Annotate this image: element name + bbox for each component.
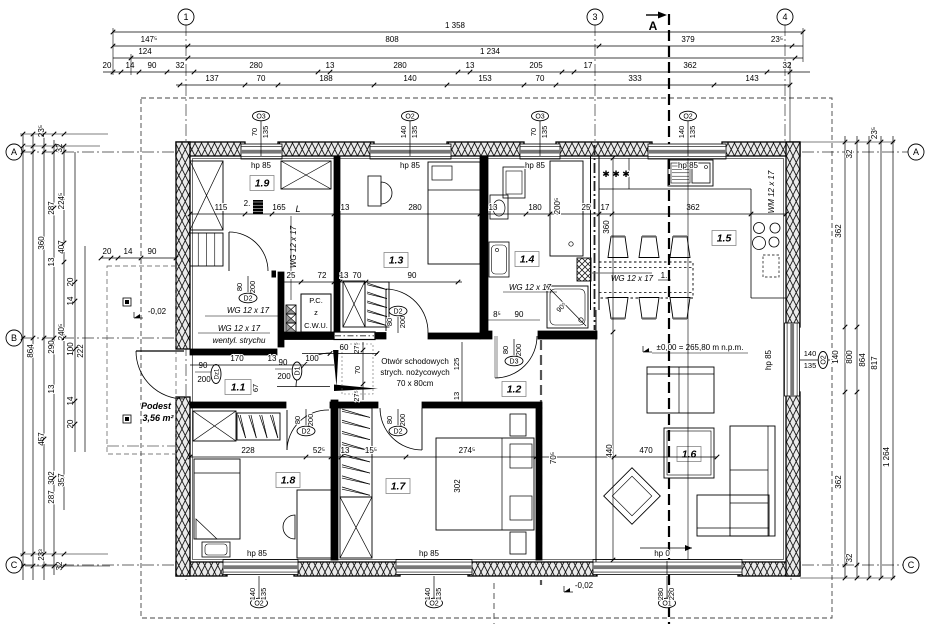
svg-text:hp 85: hp 85 [419, 549, 440, 558]
svg-text:O2: O2 [254, 601, 263, 608]
svg-text:O3: O3 [535, 114, 544, 121]
svg-text:180: 180 [528, 203, 542, 212]
svg-text:274⁵: 274⁵ [459, 446, 476, 455]
svg-text:90: 90 [199, 361, 208, 370]
svg-text:1.5: 1.5 [717, 233, 732, 245]
svg-text:70: 70 [536, 74, 545, 83]
svg-text:379: 379 [681, 35, 695, 44]
svg-text:C: C [908, 560, 915, 570]
svg-text:800: 800 [845, 350, 854, 364]
svg-text:1.9: 1.9 [255, 178, 270, 190]
svg-text:72: 72 [318, 271, 327, 280]
svg-text:WG 12 x 17: WG 12 x 17 [611, 274, 654, 283]
svg-text:17: 17 [601, 203, 610, 212]
svg-text:360: 360 [37, 236, 46, 250]
svg-text:WG 12 x 17: WG 12 x 17 [218, 324, 261, 333]
svg-text:WG 12 x 17: WG 12 x 17 [509, 283, 552, 292]
svg-text:27⁵: 27⁵ [352, 390, 361, 401]
svg-text:135: 135 [261, 126, 270, 139]
svg-text:O2: O2 [821, 355, 828, 364]
svg-text:135: 135 [259, 588, 268, 601]
svg-text:80: 80 [385, 318, 394, 326]
svg-text:302: 302 [453, 479, 462, 493]
svg-text:80: 80 [501, 346, 510, 354]
svg-text:817: 817 [870, 356, 879, 370]
svg-text:O1: O1 [662, 601, 671, 608]
svg-text:D2: D2 [302, 429, 311, 436]
svg-text:27⁵: 27⁵ [352, 342, 361, 353]
svg-text:1.3: 1.3 [389, 255, 404, 267]
svg-text:362: 362 [834, 475, 843, 489]
svg-text:864: 864 [858, 353, 867, 367]
svg-text:-0,02: -0,02 [575, 581, 594, 590]
svg-text:135: 135 [434, 588, 443, 601]
svg-text:153: 153 [478, 74, 492, 83]
svg-text:32: 32 [845, 553, 854, 562]
svg-text:70: 70 [250, 128, 259, 136]
svg-text:✱: ✱ [602, 169, 610, 179]
svg-text:140: 140 [399, 126, 408, 139]
svg-text:20: 20 [66, 277, 75, 286]
svg-text:228: 228 [241, 446, 255, 455]
svg-text:P.C.: P.C. [309, 296, 323, 305]
svg-text:137: 137 [205, 74, 219, 83]
svg-text:52⁵: 52⁵ [313, 446, 325, 455]
svg-text:Otwór schodowych: Otwór schodowych [381, 357, 449, 366]
svg-text:13: 13 [268, 354, 277, 363]
svg-text:60: 60 [340, 343, 349, 352]
svg-text:hp 85: hp 85 [764, 349, 773, 370]
svg-text:23⁵: 23⁵ [37, 125, 46, 137]
svg-text:200: 200 [514, 344, 523, 357]
svg-text:1.: 1. [661, 271, 668, 280]
svg-text:440: 440 [605, 444, 614, 458]
svg-text:224⁵: 224⁵ [57, 193, 66, 210]
svg-text:140: 140 [423, 588, 432, 601]
svg-text:1 264: 1 264 [882, 446, 891, 467]
svg-text:80: 80 [293, 416, 302, 424]
svg-text:1 234: 1 234 [480, 47, 501, 56]
svg-text:14: 14 [66, 296, 75, 305]
svg-text:hp 0: hp 0 [654, 549, 670, 558]
svg-text:90: 90 [515, 310, 524, 319]
svg-text:✱: ✱ [612, 169, 620, 179]
svg-text:205: 205 [529, 61, 543, 70]
svg-text:hp 85: hp 85 [247, 549, 268, 558]
svg-text:147⁵: 147⁵ [141, 35, 158, 44]
svg-text:333: 333 [628, 74, 642, 83]
svg-text:222: 222 [76, 344, 85, 358]
svg-text:20: 20 [103, 61, 112, 70]
svg-text:-0,02: -0,02 [148, 307, 167, 316]
svg-text:287: 287 [47, 490, 56, 504]
svg-text:362: 362 [683, 61, 697, 70]
svg-text:70⁵: 70⁵ [549, 452, 558, 464]
svg-text:D3: D3 [510, 359, 519, 366]
svg-text:4: 4 [782, 12, 787, 22]
svg-text:WM 12 x 17: WM 12 x 17 [767, 170, 776, 213]
svg-text:14: 14 [66, 396, 75, 405]
svg-text:strych. nożycowych: strych. nożycowych [380, 368, 449, 377]
svg-text:13: 13 [47, 384, 56, 393]
svg-text:1.6: 1.6 [682, 449, 697, 461]
svg-text:200: 200 [197, 375, 211, 384]
svg-text:O2: O2 [683, 114, 692, 121]
svg-text:hp 85: hp 85 [525, 161, 546, 170]
svg-text:C.W.U.: C.W.U. [304, 321, 328, 330]
svg-text:z: z [314, 308, 318, 317]
svg-text:1.4: 1.4 [520, 254, 535, 266]
svg-text:125: 125 [452, 358, 461, 371]
svg-text:1 358: 1 358 [445, 21, 466, 30]
svg-text:8⁵: 8⁵ [493, 310, 501, 319]
svg-text:140: 140 [677, 126, 686, 139]
svg-text:80: 80 [235, 283, 244, 291]
svg-text:100: 100 [305, 354, 319, 363]
svg-text:13: 13 [326, 61, 335, 70]
svg-text:23⁵: 23⁵ [771, 35, 783, 44]
svg-text:170: 170 [230, 354, 244, 363]
svg-text:Dz1: Dz1 [215, 368, 221, 379]
svg-text:140: 140 [804, 349, 817, 358]
svg-text:1.2: 1.2 [507, 384, 522, 396]
svg-text:70 x 80cm: 70 x 80cm [397, 379, 434, 388]
svg-text:362: 362 [834, 224, 843, 238]
svg-text:200: 200 [398, 414, 407, 427]
svg-text:A: A [649, 19, 658, 33]
svg-text:135: 135 [410, 126, 419, 139]
svg-text:O2: O2 [405, 114, 414, 121]
svg-text:13: 13 [489, 203, 498, 212]
svg-text:90: 90 [148, 61, 157, 70]
svg-text:143: 143 [745, 74, 759, 83]
svg-text:32: 32 [176, 61, 185, 70]
svg-text:808: 808 [385, 35, 399, 44]
svg-text:3: 3 [592, 12, 597, 22]
svg-text:200: 200 [398, 316, 407, 329]
svg-text:13: 13 [341, 446, 350, 455]
svg-text:14: 14 [126, 61, 135, 70]
svg-text:25: 25 [582, 203, 591, 212]
svg-text:23⁵: 23⁵ [870, 127, 879, 139]
svg-text:67: 67 [251, 384, 260, 392]
svg-text:1.8: 1.8 [281, 475, 296, 487]
svg-text:1.7: 1.7 [391, 481, 407, 493]
svg-text:70: 70 [353, 366, 362, 374]
svg-text:90: 90 [148, 247, 157, 256]
svg-text:3,56 m²: 3,56 m² [142, 413, 174, 423]
svg-text:70: 70 [353, 271, 362, 280]
svg-text:A: A [11, 147, 17, 157]
svg-text:O2: O2 [429, 601, 438, 608]
svg-text:hp 85: hp 85 [251, 161, 272, 170]
svg-text:O3: O3 [256, 114, 265, 121]
svg-text:362: 362 [686, 203, 700, 212]
svg-text:B: B [11, 333, 17, 343]
svg-text:290: 290 [47, 340, 56, 354]
svg-text:14: 14 [124, 247, 133, 256]
svg-text:70: 70 [529, 128, 538, 136]
svg-text:2.: 2. [244, 199, 251, 208]
svg-text:A: A [913, 147, 919, 157]
svg-text:70: 70 [257, 74, 266, 83]
svg-text:23³: 23³ [37, 549, 46, 561]
svg-text:17: 17 [584, 61, 593, 70]
svg-text:15⁵: 15⁵ [365, 446, 377, 455]
svg-text:220: 220 [667, 588, 676, 601]
svg-text:wentyl. strychu: wentyl. strychu [213, 336, 266, 345]
svg-text:13: 13 [466, 61, 475, 70]
svg-text:100: 100 [66, 342, 75, 356]
svg-text:13: 13 [452, 392, 461, 400]
svg-text:1.1: 1.1 [231, 382, 246, 394]
svg-text:13: 13 [341, 203, 350, 212]
svg-text:135: 135 [688, 126, 697, 139]
svg-text:124: 124 [138, 47, 152, 56]
svg-text:200: 200 [248, 281, 257, 294]
svg-text:280: 280 [656, 588, 665, 601]
svg-text:140: 140 [831, 350, 840, 364]
svg-text:WG 12 x 17: WG 12 x 17 [289, 225, 298, 268]
svg-text:32: 32 [845, 149, 854, 158]
svg-text:D2: D2 [394, 429, 403, 436]
svg-text:165: 165 [272, 203, 286, 212]
svg-text:115: 115 [215, 203, 228, 212]
svg-text:90: 90 [408, 271, 417, 280]
svg-text:20: 20 [103, 247, 112, 256]
svg-text:1: 1 [183, 12, 188, 22]
svg-text:13: 13 [340, 271, 349, 280]
svg-text:280: 280 [249, 61, 263, 70]
svg-text:360: 360 [602, 220, 611, 234]
svg-text:140: 140 [248, 588, 257, 601]
svg-text:32: 32 [783, 61, 792, 70]
svg-text:D2: D2 [394, 309, 403, 316]
svg-text:135: 135 [804, 361, 817, 370]
svg-text:135: 135 [540, 126, 549, 139]
svg-text:L: L [295, 204, 300, 214]
svg-text:D2: D2 [244, 296, 253, 303]
svg-text:357: 357 [57, 473, 66, 487]
svg-text:280: 280 [408, 203, 422, 212]
svg-text:200: 200 [306, 414, 315, 427]
svg-text:280: 280 [393, 61, 407, 70]
svg-text:90: 90 [279, 358, 288, 367]
svg-text:WG 12 x 17: WG 12 x 17 [227, 306, 270, 315]
svg-text:hp 85: hp 85 [400, 161, 421, 170]
svg-text:✱: ✱ [622, 169, 630, 179]
svg-text:C: C [11, 560, 18, 570]
svg-text:D1: D1 [295, 366, 302, 375]
svg-text:25: 25 [287, 271, 296, 280]
svg-text:864: 864 [26, 344, 35, 358]
svg-text:20: 20 [66, 419, 75, 428]
svg-text:200: 200 [277, 372, 291, 381]
svg-text:470: 470 [639, 446, 653, 455]
svg-text:Podest: Podest [141, 401, 172, 411]
svg-text:80: 80 [385, 416, 394, 424]
svg-text:140: 140 [403, 74, 417, 83]
svg-text:±0,00 = 265,80 m n.p.m.: ±0,00 = 265,80 m n.p.m. [657, 343, 744, 352]
svg-text:188: 188 [319, 74, 333, 83]
svg-text:13: 13 [47, 257, 56, 266]
svg-text:200⁵: 200⁵ [553, 198, 562, 215]
